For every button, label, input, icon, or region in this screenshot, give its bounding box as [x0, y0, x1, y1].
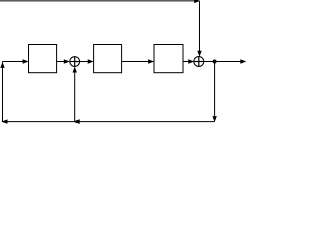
arrowhead into block D3	[148, 59, 154, 63]
wire adder S1 to block D2	[80, 61, 89, 63]
arrowhead left at bottom-left corner	[1, 119, 7, 123]
wire D1 to adder S1	[57, 61, 65, 63]
wire D2 to D3	[122, 61, 149, 63]
wire input to block D1	[3, 61, 24, 63]
wire vertical up to adder S1	[74, 72, 76, 122]
arrowhead down into adder S2	[197, 51, 201, 57]
arrowhead up at left feedback junction	[0, 62, 4, 68]
block D2 (delay element)	[94, 45, 122, 73]
adder S1 (circle)	[70, 57, 80, 67]
arrowhead right at top-right corner	[194, 0, 200, 3]
wire output from adder S2	[204, 61, 241, 63]
arrowhead left at mid-bottom junction	[73, 119, 80, 124]
block D3 (delay element)	[154, 45, 183, 73]
adder S2 (circle)	[194, 57, 204, 67]
arrowhead up into adder S1 bottom	[73, 67, 77, 73]
arrowhead into adder S1	[64, 59, 70, 63]
block D1 (delay element)	[29, 45, 57, 73]
adder S2 plus sign	[194, 61, 204, 63]
wire top feedback line	[0, 0, 195, 2]
arrowhead into adder S2	[188, 59, 194, 63]
wire bottom feedback line	[3, 121, 215, 123]
arrowhead down at bottom-right corner	[212, 116, 216, 122]
arrowhead into block D1	[23, 59, 29, 63]
junction dot on output wire	[213, 60, 217, 64]
arrowhead output right	[240, 59, 246, 63]
wire vertical from top corner down to adder S2	[199, 1, 201, 51]
wire D3 to adder S2	[183, 61, 189, 63]
wire right vertical tap down	[214, 62, 216, 117]
wire left vertical feedback	[2, 62, 4, 122]
adder S1 plus sign	[70, 61, 80, 63]
arrowhead into block D2	[88, 59, 94, 63]
